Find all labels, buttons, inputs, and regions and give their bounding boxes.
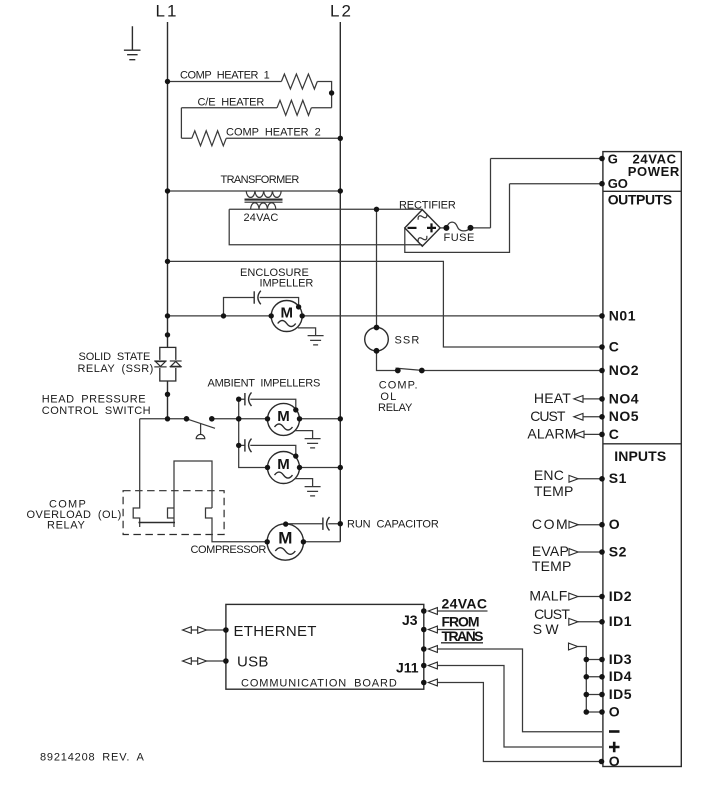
svg-text:COMMUNICATION BOARD: COMMUNICATION BOARD	[241, 677, 397, 689]
svg-text:IMPELLER: IMPELLER	[260, 277, 314, 289]
svg-text:RELAY: RELAY	[47, 520, 85, 532]
svg-text:M: M	[277, 408, 290, 425]
svg-text:TRANSFORMER: TRANSFORMER	[221, 174, 300, 186]
svg-text:SOLID STATE: SOLID STATE	[79, 351, 151, 363]
svg-text:INPUTS: INPUTS	[614, 448, 666, 464]
svg-text:RELAY (SSR): RELAY (SSR)	[78, 363, 154, 375]
svg-text:N01: N01	[609, 307, 636, 323]
svg-text:ALARM: ALARM	[527, 426, 576, 442]
svg-text:COMP HEATER 1: COMP HEATER 1	[180, 70, 270, 82]
svg-text:HEAD PRESSURE: HEAD PRESSURE	[42, 394, 146, 406]
svg-text:L1: L1	[156, 2, 179, 21]
svg-text:NO5: NO5	[609, 408, 639, 424]
svg-text:O: O	[609, 703, 620, 719]
svg-text:ETHERNET: ETHERNET	[234, 623, 317, 640]
svg-text:RUN CAPACITOR: RUN CAPACITOR	[347, 518, 439, 530]
svg-text:GO: GO	[608, 176, 628, 191]
svg-text:ID4: ID4	[609, 668, 632, 684]
svg-text:G: G	[608, 151, 618, 166]
svg-text:CONTROL SWITCH: CONTROL SWITCH	[42, 405, 151, 417]
svg-text:OUTPUTS: OUTPUTS	[608, 191, 673, 207]
svg-text:COM: COM	[532, 516, 568, 532]
svg-text:POWER: POWER	[628, 164, 680, 179]
svg-text:O: O	[609, 753, 620, 769]
svg-text:C: C	[609, 426, 620, 442]
svg-text:COMP HEATER 2: COMP HEATER 2	[226, 127, 321, 139]
svg-text:MALF: MALF	[529, 588, 567, 604]
svg-text:O: O	[609, 516, 620, 532]
svg-text:COMPRESSOR: COMPRESSOR	[191, 544, 267, 556]
svg-text:L2: L2	[330, 2, 353, 21]
svg-text:CUST: CUST	[530, 408, 566, 424]
svg-text:SSR: SSR	[395, 334, 420, 346]
svg-text:COMP.: COMP.	[379, 380, 418, 392]
svg-text:ID1: ID1	[609, 613, 632, 629]
svg-text:TEMP: TEMP	[532, 558, 572, 574]
svg-text:SW: SW	[533, 621, 560, 637]
svg-text:M: M	[280, 304, 293, 321]
svg-text:M: M	[277, 456, 290, 473]
svg-text:USB: USB	[237, 653, 269, 670]
svg-text:S2: S2	[609, 543, 627, 559]
svg-text:ENC: ENC	[534, 467, 564, 483]
svg-text:NO4: NO4	[609, 390, 639, 406]
svg-text:C: C	[609, 338, 620, 354]
svg-text:24VAC: 24VAC	[442, 596, 488, 612]
svg-text:24VAC: 24VAC	[244, 212, 279, 224]
svg-text:S1: S1	[609, 470, 627, 486]
svg-text:ID3: ID3	[609, 651, 632, 667]
svg-text:ID2: ID2	[609, 588, 632, 604]
svg-text:C/E HEATER: C/E HEATER	[198, 97, 265, 109]
svg-text:HEAT: HEAT	[534, 390, 571, 406]
svg-text:RELAY: RELAY	[378, 402, 413, 414]
svg-text:CUST: CUST	[534, 606, 570, 622]
svg-text:ID5: ID5	[609, 686, 632, 702]
svg-text:FUSE: FUSE	[444, 232, 475, 244]
svg-text:J3: J3	[402, 612, 418, 628]
svg-text:89214208 REV. A: 89214208 REV. A	[40, 752, 144, 764]
svg-text:TRANS: TRANS	[442, 628, 484, 644]
svg-text:EVAP: EVAP	[532, 543, 569, 559]
svg-text:TEMP: TEMP	[534, 483, 574, 499]
svg-text:J11: J11	[396, 660, 419, 676]
svg-text:M: M	[278, 529, 292, 548]
svg-text:AMBIENT IMPELLERS: AMBIENT IMPELLERS	[208, 378, 321, 390]
svg-text:NO2: NO2	[609, 362, 639, 378]
svg-text:RECTIFIER: RECTIFIER	[399, 200, 456, 212]
